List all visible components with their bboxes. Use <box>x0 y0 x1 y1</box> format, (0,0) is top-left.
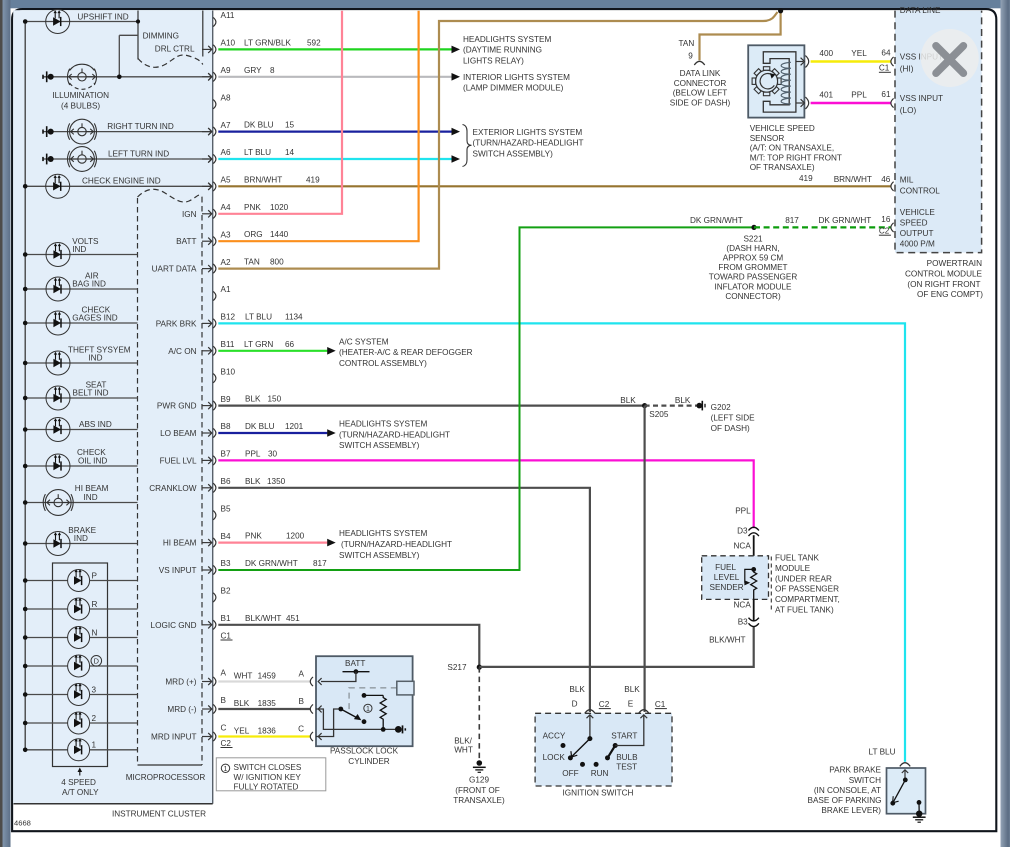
svg-text:A: A <box>221 669 227 678</box>
svg-text:PPL: PPL <box>245 449 261 458</box>
svg-text:START: START <box>611 732 637 741</box>
svg-text:ACCY: ACCY <box>543 732 566 741</box>
PCM pin 46 MIL CONTROL <box>891 182 894 191</box>
lamp CHECK OIL IND <box>25 465 137 467</box>
splice S221 <box>751 225 756 230</box>
svg-text:B: B <box>221 696 227 705</box>
wire 400 YEL 64 VSS to PCM <box>811 60 892 62</box>
svg-text:(DASH HARN,: (DASH HARN, <box>726 244 779 253</box>
svg-text:DATA LINE: DATA LINE <box>900 6 941 15</box>
pin B8 <box>213 428 216 437</box>
wire MRD B BLK 1835 <box>218 708 310 710</box>
pin MRD C <box>213 732 216 741</box>
svg-text:TRANSAXLE): TRANSAXLE) <box>453 796 505 805</box>
lamp LEFT TURN IND <box>43 158 212 160</box>
svg-text:POWERTRAIN: POWERTRAIN <box>927 259 982 268</box>
pin B10 <box>213 374 216 383</box>
pin MRD B <box>213 704 216 713</box>
wire A5 BRN/WHT 419 to PCM MIL control <box>218 185 891 187</box>
svg-text:FUEL TANK: FUEL TANK <box>775 554 820 563</box>
svg-text:IND: IND <box>84 493 98 502</box>
svg-text:LIGHTS RELAY): LIGHTS RELAY) <box>463 56 524 65</box>
lamp AIR BAG IND <box>25 288 137 290</box>
svg-text:1836: 1836 <box>258 727 277 736</box>
resistor R2 fuel level sender <box>751 567 756 572</box>
fuel tank module label bracket <box>770 557 772 611</box>
svg-text:61: 61 <box>881 90 891 99</box>
svg-text:BRAKE LEVER): BRAKE LEVER) <box>821 806 881 815</box>
svg-text:S217: S217 <box>447 663 467 672</box>
ignition contact LOCK <box>568 755 573 760</box>
resistor R1 in passlock <box>364 694 383 696</box>
ignition pin D connector <box>585 710 595 714</box>
ground G202 <box>697 403 703 409</box>
svg-text:A/C ON: A/C ON <box>168 347 196 356</box>
svg-text:(TURN/HAZARD-HEADLIGHT: (TURN/HAZARD-HEADLIGHT <box>341 540 452 549</box>
svg-text:592: 592 <box>307 38 321 47</box>
svg-text:HEADLIGHTS SYSTEM: HEADLIGHTS SYSTEM <box>339 529 427 538</box>
svg-text:D: D <box>94 657 99 666</box>
PCM pin 64 VSS INPUT (HI) <box>891 57 894 66</box>
svg-text:A1: A1 <box>221 285 231 294</box>
svg-text:SWITCH: SWITCH <box>849 776 881 785</box>
svg-text:1350: 1350 <box>267 477 286 486</box>
junction tan data line at page edge <box>778 8 783 13</box>
svg-text:MODULE: MODULE <box>775 564 811 573</box>
svg-text:OF ENG COMPT): OF ENG COMPT) <box>917 290 983 299</box>
lamp THEFT SYSYEM IND <box>25 362 137 364</box>
annotation 4 SPEED A/T ONLY <box>79 769 81 775</box>
svg-text:C1: C1 <box>221 631 232 640</box>
svg-text:14: 14 <box>285 148 295 157</box>
svg-text:SWITCH ASSEMBLY): SWITCH ASSEMBLY) <box>339 551 420 560</box>
svg-text:SIDE OF DASH): SIDE OF DASH) <box>670 98 731 107</box>
pin A10 <box>213 45 216 54</box>
lamp gear N indicator <box>25 637 67 639</box>
svg-text:S221: S221 <box>743 234 763 243</box>
svg-text:64: 64 <box>881 48 891 57</box>
svg-text:P: P <box>92 571 98 580</box>
svg-text:BLK: BLK <box>675 396 691 405</box>
vehicle speed sensor block <box>748 45 804 117</box>
svg-text:YEL: YEL <box>851 49 867 58</box>
svg-text:S205: S205 <box>649 410 669 419</box>
svg-text:B2: B2 <box>221 587 231 596</box>
lamp CHECK GAGES IND <box>25 322 137 324</box>
svg-text:C1: C1 <box>879 64 890 73</box>
svg-text:1134: 1134 <box>285 312 303 321</box>
svg-text:A7: A7 <box>221 121 231 130</box>
svg-text:1459: 1459 <box>258 672 277 681</box>
svg-text:PARK BRK: PARK BRK <box>156 319 197 328</box>
svg-text:TEST: TEST <box>616 763 637 772</box>
fuel sender wiper arrow <box>745 569 754 582</box>
svg-text:IND: IND <box>74 534 88 543</box>
svg-text:DK BLU: DK BLU <box>245 422 275 431</box>
svg-text:(UNDER REAR: (UNDER REAR <box>775 574 832 583</box>
svg-text:LT BLU: LT BLU <box>869 748 896 757</box>
svg-text:LOGIC GND: LOGIC GND <box>151 621 197 630</box>
svg-text:WHT: WHT <box>234 672 253 681</box>
svg-text:PNK: PNK <box>244 203 261 212</box>
lamp gear 2 indicator <box>25 722 67 724</box>
svg-text:CYLINDER: CYLINDER <box>348 757 389 766</box>
svg-text:WHT: WHT <box>454 746 473 755</box>
wire B3 DK GRN/WHT 817 vehicle speed input <box>218 227 753 570</box>
wire B1 BLK/WHT 451 logic ground to S217 <box>218 625 479 667</box>
pin B7 <box>213 456 216 465</box>
svg-text:A4: A4 <box>221 203 231 212</box>
svg-text:1: 1 <box>92 741 97 750</box>
svg-text:A6: A6 <box>221 148 231 157</box>
svg-text:46: 46 <box>881 175 891 184</box>
PCM pin 16 VEHICLE SPEED OUTPUT <box>891 223 894 232</box>
svg-text:INTERIOR LIGHTS SYSTEM: INTERIOR LIGHTS SYSTEM <box>463 73 570 82</box>
pin B2 <box>213 593 216 602</box>
svg-text:LO BEAM: LO BEAM <box>160 429 197 438</box>
wire NCA into fuel level sender <box>753 535 755 569</box>
svg-text:B1: B1 <box>221 614 231 623</box>
wire TAN 9 branch to data link connector <box>700 11 781 60</box>
svg-text:B4: B4 <box>221 532 231 541</box>
svg-text:MRD INPUT: MRD INPUT <box>151 733 196 742</box>
svg-text:A11: A11 <box>221 11 235 20</box>
wire B4 PNK 1200 to headlights system <box>218 541 327 543</box>
wire illumination to dimming control <box>118 35 120 77</box>
wire A2 TAN 800 UART data line <box>218 12 777 269</box>
pin A4 <box>213 209 216 218</box>
svg-text:INSTRUMENT CLUSTER: INSTRUMENT CLUSTER <box>112 809 206 818</box>
ignition contact RUN <box>594 762 599 767</box>
svg-text:8: 8 <box>270 66 275 75</box>
svg-text:PNK: PNK <box>245 532 262 541</box>
svg-text:NCA: NCA <box>734 600 752 609</box>
svg-text:MICROPROCESSOR: MICROPROCESSOR <box>126 773 206 782</box>
lamp gear 3 indicator <box>25 694 67 696</box>
svg-text:1835: 1835 <box>258 699 277 708</box>
wire BLK/WHT fuel sender return to S217 <box>479 627 753 667</box>
svg-text:UPSHIFT IND: UPSHIFT IND <box>77 13 128 22</box>
fuel level sender block <box>702 556 769 600</box>
svg-text:817: 817 <box>313 559 327 568</box>
svg-text:CONNECTOR: CONNECTOR <box>674 79 727 88</box>
svg-text:A: A <box>299 670 305 679</box>
svg-text:R: R <box>92 600 98 609</box>
svg-text:EXTERIOR LIGHTS SYSTEM: EXTERIOR LIGHTS SYSTEM <box>473 128 583 137</box>
junction upshift wire at DRL control block <box>136 19 140 23</box>
svg-text:APPROX 59 CM: APPROX 59 CM <box>723 254 784 263</box>
svg-text:OIL IND: OIL IND <box>78 457 107 466</box>
svg-text:COMPARTMENT,: COMPARTMENT, <box>775 595 840 604</box>
node exterior lights system (turn/hazard-headlight switch assembly) <box>463 125 472 167</box>
passlock battery terminal <box>343 671 370 673</box>
connector B3 break <box>749 618 759 621</box>
wire B11 LT GRN 66 to A/C system <box>218 350 327 352</box>
svg-text:DK BLU: DK BLU <box>244 121 274 130</box>
instrument cluster U1 body <box>13 10 213 804</box>
svg-text:(4 BULBS): (4 BULBS) <box>61 102 100 111</box>
svg-text:(LO): (LO) <box>900 106 917 115</box>
svg-text:GAGES IND: GAGES IND <box>72 314 118 323</box>
svg-text:(BELOW LEFT: (BELOW LEFT <box>673 89 728 98</box>
wire 401 PPL 61 VSS to PCM <box>811 102 892 104</box>
svg-text:(A/T: ON TRANSAXLE,: (A/T: ON TRANSAXLE, <box>750 144 834 153</box>
svg-text:G202: G202 <box>711 403 731 412</box>
lamp gear 1 indicator <box>25 749 67 751</box>
svg-text:(HI): (HI) <box>900 64 914 73</box>
pin B3 <box>213 565 216 574</box>
VSS tone wheel <box>756 70 778 92</box>
passlock case terminal <box>395 726 402 733</box>
svg-text:A8: A8 <box>221 93 231 102</box>
svg-text:HI BEAM: HI BEAM <box>163 539 197 548</box>
dimming DRL control block <box>138 11 203 60</box>
svg-text:FROM GROMMET: FROM GROMMET <box>718 263 787 272</box>
svg-text:FUEL LVL: FUEL LVL <box>160 456 197 465</box>
svg-text:VEHICLE SPEED: VEHICLE SPEED <box>750 124 815 133</box>
svg-text:B: B <box>299 697 305 706</box>
svg-text:TOWARD PASSENGER: TOWARD PASSENGER <box>709 273 798 282</box>
svg-text:SWITCH CLOSES: SWITCH CLOSES <box>234 763 302 772</box>
svg-text:BLK/: BLK/ <box>454 737 472 746</box>
svg-text:B12: B12 <box>221 313 236 322</box>
lamp gear R indicator <box>25 608 67 610</box>
wire B6 BLK 1350 cranklow to ignition switch pin D <box>218 488 590 712</box>
wire B8 DK BLU 1201 to headlights system <box>218 432 327 434</box>
svg-text:VSS INPUT: VSS INPUT <box>900 94 943 103</box>
svg-text:MRD (-): MRD (-) <box>167 705 196 714</box>
svg-text:BLK: BLK <box>620 396 636 405</box>
lamp ILLUMINATION (4 BULBS) <box>43 76 212 78</box>
wire A10 LT GRN/BLK 592 to headlights system <box>218 48 451 50</box>
svg-text:PARK BRAKE: PARK BRAKE <box>829 766 881 775</box>
svg-text:(FRONT OF: (FRONT OF <box>455 786 499 795</box>
svg-text:401: 401 <box>819 90 833 99</box>
svg-text:W/ IGNITION KEY: W/ IGNITION KEY <box>234 773 302 782</box>
svg-text:SPEED: SPEED <box>900 219 928 228</box>
VSS coil winding <box>781 62 791 104</box>
lamp HI BEAM IND <box>25 502 137 504</box>
svg-text:9: 9 <box>688 52 693 61</box>
pin A1 <box>213 291 216 300</box>
svg-text:800: 800 <box>270 258 284 267</box>
svg-text:817: 817 <box>785 216 799 225</box>
svg-text:BLK: BLK <box>245 395 261 404</box>
svg-text:GRY: GRY <box>244 66 262 75</box>
svg-text:1: 1 <box>224 766 228 773</box>
ignition switch rotor (pin D) <box>589 715 591 739</box>
pin B4 <box>213 538 216 547</box>
svg-text:(LAMP DIMMER MODULE): (LAMP DIMMER MODULE) <box>463 84 564 93</box>
svg-text:DK GRN/WHT: DK GRN/WHT <box>819 216 872 225</box>
svg-text:3: 3 <box>92 685 97 694</box>
pin A11 <box>213 17 216 26</box>
ignition contact ACCY <box>561 743 566 748</box>
svg-text:LEVEL: LEVEL <box>714 573 740 582</box>
svg-text:DK GRN/WHT: DK GRN/WHT <box>245 559 298 568</box>
svg-text:419: 419 <box>306 175 320 184</box>
svg-text:LT GRN/BLK: LT GRN/BLK <box>244 38 292 47</box>
svg-text:DATA LINK: DATA LINK <box>680 69 721 78</box>
svg-text:SWITCH ASSEMBLY): SWITCH ASSEMBLY) <box>339 441 420 450</box>
svg-text:2: 2 <box>92 714 97 723</box>
pin A8 <box>213 100 216 109</box>
svg-text:451: 451 <box>286 614 300 623</box>
svg-text:(ON RIGHT FRONT: (ON RIGHT FRONT <box>907 280 980 289</box>
wire A6 LT BLU 14 to exterior lights system <box>218 158 451 160</box>
ignition pin E connector <box>639 710 649 714</box>
svg-text:E: E <box>628 700 634 709</box>
note switch closes w/ ignition key fully rotated <box>216 758 325 791</box>
svg-text:OFF: OFF <box>562 769 578 778</box>
svg-text:15: 15 <box>285 121 295 130</box>
svg-text:(IN CONSOLE, AT: (IN CONSOLE, AT <box>814 786 881 795</box>
svg-text:DRL CTRL: DRL CTRL <box>155 45 195 54</box>
wire BLK S205 to G202 <box>645 405 698 407</box>
wire BLK S205 down to ignition switch pin E <box>643 406 645 712</box>
data link connector DLC <box>694 61 704 65</box>
svg-text:IGNITION SWITCH: IGNITION SWITCH <box>563 789 634 798</box>
pin B12 <box>213 319 216 328</box>
ground G129 <box>477 760 483 766</box>
svg-text:B6: B6 <box>221 477 231 486</box>
wire A9 GRY 8 to interior lights system <box>218 76 451 78</box>
passlock pin A arc <box>310 677 313 686</box>
svg-text:C2: C2 <box>879 227 890 236</box>
svg-text:CONTROL: CONTROL <box>900 186 940 195</box>
pin A5 <box>213 182 216 191</box>
svg-text:B3: B3 <box>738 618 748 627</box>
svg-text:PPL: PPL <box>851 90 867 99</box>
svg-text:DK GRN/WHT: DK GRN/WHT <box>690 216 743 225</box>
svg-text:IND: IND <box>72 245 86 254</box>
svg-text:TAN: TAN <box>679 39 695 48</box>
connector D3 break <box>749 527 759 530</box>
wire A3 ORG 1440 battery feed <box>218 11 418 241</box>
ignition switch block <box>535 713 672 786</box>
lamp ABS IND <box>25 429 137 431</box>
lamp UPSHIFT IND <box>25 21 138 23</box>
svg-text:419: 419 <box>799 174 813 183</box>
svg-text:A/T ONLY: A/T ONLY <box>62 788 99 797</box>
pin A7 <box>213 127 216 136</box>
svg-text:BULB: BULB <box>616 753 638 762</box>
splice S217 <box>477 665 482 670</box>
svg-text:ILLUMINATION: ILLUMINATION <box>52 91 109 100</box>
svg-text:400: 400 <box>819 49 833 58</box>
svg-text:SWITCH ASSEMBLY): SWITCH ASSEMBLY) <box>473 149 554 158</box>
VSS output pin hi <box>796 61 803 63</box>
svg-text:1020: 1020 <box>270 203 289 212</box>
svg-text:A/C SYSTEM: A/C SYSTEM <box>339 337 389 346</box>
svg-text:BRN/WHT: BRN/WHT <box>244 175 282 184</box>
svg-text:BELT IND: BELT IND <box>73 389 109 398</box>
svg-text:A2: A2 <box>221 258 231 267</box>
svg-text:1: 1 <box>366 706 370 713</box>
svg-text:PASSLOCK LOCK: PASSLOCK LOCK <box>330 747 399 756</box>
svg-text:MRD (+): MRD (+) <box>165 678 196 687</box>
svg-text:BLK: BLK <box>624 685 640 694</box>
svg-text:NCA: NCA <box>734 542 752 551</box>
PCM pin 61 VSS INPUT (LO) <box>891 98 894 107</box>
svg-text:SENDER: SENDER <box>710 583 744 592</box>
svg-text:VS INPUT: VS INPUT <box>159 566 197 575</box>
lamp VOLTS IND <box>25 254 137 256</box>
pin B1 <box>213 620 216 629</box>
svg-text:IND: IND <box>88 354 102 363</box>
svg-text:DIMMING: DIMMING <box>143 32 179 41</box>
svg-text:4000 P/M: 4000 P/M <box>900 239 935 248</box>
svg-text:C2: C2 <box>221 739 232 748</box>
svg-text:B11: B11 <box>221 340 235 349</box>
svg-text:1440: 1440 <box>270 230 289 239</box>
svg-text:BASE OF PARKING: BASE OF PARKING <box>807 796 881 805</box>
wire MRD C YEL 1836 <box>218 735 310 737</box>
svg-text:UART DATA: UART DATA <box>152 265 197 274</box>
svg-text:BLK/WHT: BLK/WHT <box>709 635 745 644</box>
wire A4 PNK 1020 ignition feed <box>218 11 342 214</box>
svg-text:N: N <box>92 628 98 637</box>
park brake switch contacts <box>904 770 906 780</box>
svg-text:RIGHT TURN IND: RIGHT TURN IND <box>107 122 174 131</box>
svg-text:CONTROL MODULE: CONTROL MODULE <box>905 270 983 279</box>
passlock lock cylinder block <box>316 656 413 746</box>
powertrain control module block <box>895 11 982 253</box>
svg-text:1200: 1200 <box>286 532 305 541</box>
svg-text:HEADLIGHTS SYSTEM: HEADLIGHTS SYSTEM <box>463 35 551 44</box>
lamp gear P indicator <box>25 580 67 582</box>
ignition contact START to pin E <box>613 743 618 748</box>
pin A3 <box>213 237 216 246</box>
svg-text:C: C <box>298 725 304 734</box>
wire B7 PPL 30 fuel level to fuel tank module <box>218 460 753 528</box>
svg-text:PPL: PPL <box>735 507 751 516</box>
svg-text:A10: A10 <box>221 39 236 48</box>
svg-text:OF TRANSAXLE): OF TRANSAXLE) <box>750 163 815 172</box>
svg-text:CRANKLOW: CRANKLOW <box>149 484 197 493</box>
svg-text:G129: G129 <box>469 776 489 785</box>
lamp gear D indicator <box>25 665 67 667</box>
lamp BRAKE IND <box>25 543 137 545</box>
svg-text:BATT: BATT <box>345 659 365 668</box>
svg-text:BLK: BLK <box>245 477 261 486</box>
svg-text:C1: C1 <box>655 700 666 709</box>
pin B9 <box>213 401 216 410</box>
close button (viewer UI) <box>921 29 979 87</box>
svg-text:30: 30 <box>268 449 278 458</box>
svg-text:B3: B3 <box>221 559 231 568</box>
svg-text:INFLATOR MODULE: INFLATOR MODULE <box>714 282 792 291</box>
svg-text:D: D <box>572 700 578 709</box>
svg-text:FUEL: FUEL <box>715 563 736 572</box>
svg-text:B5: B5 <box>221 504 231 513</box>
svg-text:OF DASH): OF DASH) <box>711 424 750 433</box>
svg-text:PWR GND: PWR GND <box>157 402 197 411</box>
pin A9 <box>213 72 216 81</box>
svg-text:B10: B10 <box>221 367 236 376</box>
svg-text:4 SPEED: 4 SPEED <box>61 778 96 787</box>
svg-text:A9: A9 <box>221 66 231 75</box>
svg-text:B8: B8 <box>221 422 231 431</box>
gear position indicator block (4 speed A/T) <box>53 563 108 767</box>
wire MRD A WHT 1459 <box>218 680 310 682</box>
svg-text:CHECK ENGINE IND: CHECK ENGINE IND <box>82 176 161 185</box>
svg-text:A5: A5 <box>221 176 231 185</box>
svg-text:BLK/WHT: BLK/WHT <box>245 614 281 623</box>
svg-text:66: 66 <box>285 340 295 349</box>
svg-text:HEADLIGHTS SYSTEM: HEADLIGHTS SYSTEM <box>339 420 427 429</box>
svg-text:(HEATER-A/C & REAR DEFOGGER: (HEATER-A/C & REAR DEFOGGER <box>339 348 473 357</box>
